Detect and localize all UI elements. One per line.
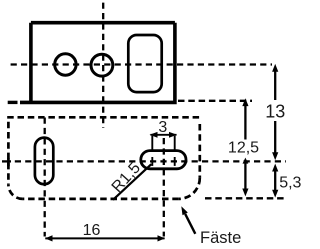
vertical slot <box>35 138 53 185</box>
bottom dashed extension to right <box>205 197 286 199</box>
bottom view right edge <box>198 124 201 178</box>
horizontal centerline bottom view: first dash <box>2 160 11 162</box>
dimension 5,3 <box>274 171 276 190</box>
bottom view left edge <box>7 122 10 185</box>
svg-text:Fäste: Fäste <box>200 229 241 247</box>
vertical centerline through center circle <box>102 3 104 128</box>
dimension 12,5 <box>244 105 246 190</box>
hole circle left <box>55 54 76 75</box>
bottom view top edge <box>7 116 200 119</box>
hole circle center <box>91 54 113 76</box>
svg-text:16: 16 <box>83 222 101 239</box>
leader arrow to outline (Fäste) <box>185 214 195 234</box>
dashed extension of rect bottom edge to the right <box>178 100 252 102</box>
bottom view corner arc bottom-left <box>8 185 22 199</box>
svg-text:12,5: 12,5 <box>228 140 259 157</box>
bottom view bottom edge <box>23 198 179 201</box>
vertical centerline of vertical slot <box>44 118 46 237</box>
radius leader line <box>113 164 151 200</box>
bottom view dashed outline <box>7 117 200 199</box>
bottom view corner arc bottom-right <box>179 178 200 199</box>
horizontal centerline bottom view <box>15 160 286 162</box>
dimension 16 <box>45 237 164 239</box>
horizontal centerline top view <box>11 63 272 65</box>
dimension 13 <box>274 71 276 153</box>
svg-text:5,3: 5,3 <box>279 175 301 192</box>
crosshair tick on outline left edge <box>7 158 10 166</box>
svg-text:13: 13 <box>265 101 285 121</box>
horizontal slot <box>141 151 186 169</box>
rounded rectangular cutout <box>128 35 161 92</box>
dimension 3 <box>151 135 177 166</box>
svg-text:3: 3 <box>158 119 167 136</box>
vertical centerline of horizontal slot <box>163 138 165 237</box>
top view rectangle <box>20 23 177 103</box>
stray dash left of bottom edge <box>8 101 18 104</box>
